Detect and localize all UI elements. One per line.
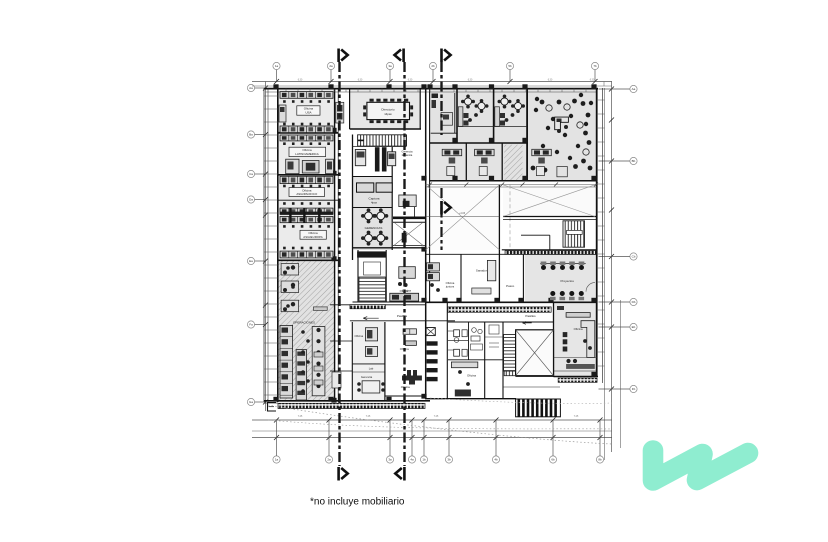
svg-text:Pasillos: Pasillos bbox=[525, 314, 536, 318]
svg-text:*no incluye mobiliario: *no incluye mobiliario bbox=[310, 497, 405, 508]
svg-text:6.30: 6.30 bbox=[590, 79, 595, 81]
svg-text:3b: 3b bbox=[447, 458, 451, 462]
svg-text:Ea: Ea bbox=[249, 259, 253, 263]
svg-text:Ga: Ga bbox=[249, 400, 253, 404]
svg-text:7.25: 7.25 bbox=[366, 416, 371, 418]
svg-text:8b: 8b bbox=[598, 458, 602, 462]
svg-text:Fa: Fa bbox=[249, 323, 253, 327]
svg-text:4b: 4b bbox=[494, 458, 498, 462]
svg-text:7.25: 7.25 bbox=[574, 416, 579, 418]
svg-text:4a: 4a bbox=[410, 458, 414, 462]
svg-text:ASIA/PACIFICO: ASIA/PACIFICO bbox=[296, 192, 318, 196]
svg-text:Proyectos: Proyectos bbox=[561, 279, 575, 283]
svg-text:6.30: 6.30 bbox=[298, 79, 303, 81]
svg-text:LATINOAMERICA: LATINOAMERICA bbox=[295, 152, 318, 156]
svg-text:Pasillos: Pasillos bbox=[397, 314, 408, 318]
svg-text:2b: 2b bbox=[431, 64, 435, 68]
svg-text:Cb: Cb bbox=[632, 255, 636, 259]
svg-text:Oficina: Oficina bbox=[354, 334, 363, 338]
svg-text:USA: USA bbox=[305, 110, 311, 114]
svg-text:Bb: Bb bbox=[632, 159, 636, 163]
svg-text:2a: 2a bbox=[329, 64, 333, 68]
svg-text:1a: 1a bbox=[275, 64, 279, 68]
svg-text:Db: Db bbox=[632, 300, 636, 304]
svg-text:OPERACIONES: OPERACIONES bbox=[293, 321, 315, 325]
svg-text:1a: 1a bbox=[275, 458, 279, 462]
svg-text:5b: 5b bbox=[508, 64, 512, 68]
svg-text:14pax: 14pax bbox=[384, 112, 392, 116]
svg-text:Gerencia: Gerencia bbox=[361, 375, 373, 379]
svg-text:Oficina: Oficina bbox=[467, 374, 476, 378]
svg-text:6.30: 6.30 bbox=[358, 79, 363, 81]
svg-text:Pasco: Pasco bbox=[506, 284, 514, 288]
svg-text:7b: 7b bbox=[593, 64, 597, 68]
svg-text:Ba: Ba bbox=[249, 133, 253, 137]
svg-text:Fb: Fb bbox=[632, 387, 636, 391]
svg-text:6.30: 6.30 bbox=[408, 79, 413, 81]
svg-text:Da: Da bbox=[249, 198, 253, 202]
svg-text:1b: 1b bbox=[422, 458, 426, 462]
svg-text:Gerencia: Gerencia bbox=[402, 150, 413, 154]
svg-text:3a: 3a bbox=[388, 458, 392, 462]
svg-text:Aa: Aa bbox=[249, 86, 253, 90]
svg-text:juniors: juniors bbox=[445, 284, 455, 288]
svg-text:4pax: 4pax bbox=[371, 201, 378, 205]
svg-text:6b: 6b bbox=[551, 458, 555, 462]
svg-text:3a: 3a bbox=[388, 64, 392, 68]
svg-text:7.25: 7.25 bbox=[298, 416, 303, 418]
svg-text:+4.06: +4.06 bbox=[459, 212, 466, 215]
svg-text:7.25: 7.25 bbox=[434, 416, 439, 418]
svg-text:Aa: Aa bbox=[632, 87, 636, 91]
svg-text:6.30: 6.30 bbox=[548, 79, 553, 81]
svg-text:GERENCIAS: GERENCIAS bbox=[365, 226, 383, 230]
svg-text:ASIA/EUROPA: ASIA/EUROPA bbox=[303, 235, 322, 239]
svg-text:Sanador: Sanador bbox=[476, 269, 487, 273]
svg-text:2a: 2a bbox=[327, 458, 331, 462]
svg-text:Eb: Eb bbox=[632, 325, 636, 329]
svg-text:Directorio: Directorio bbox=[381, 107, 395, 111]
svg-text:Lab: Lab bbox=[369, 367, 374, 371]
svg-text:Ca: Ca bbox=[249, 172, 253, 176]
svg-text:6.30: 6.30 bbox=[468, 79, 473, 81]
